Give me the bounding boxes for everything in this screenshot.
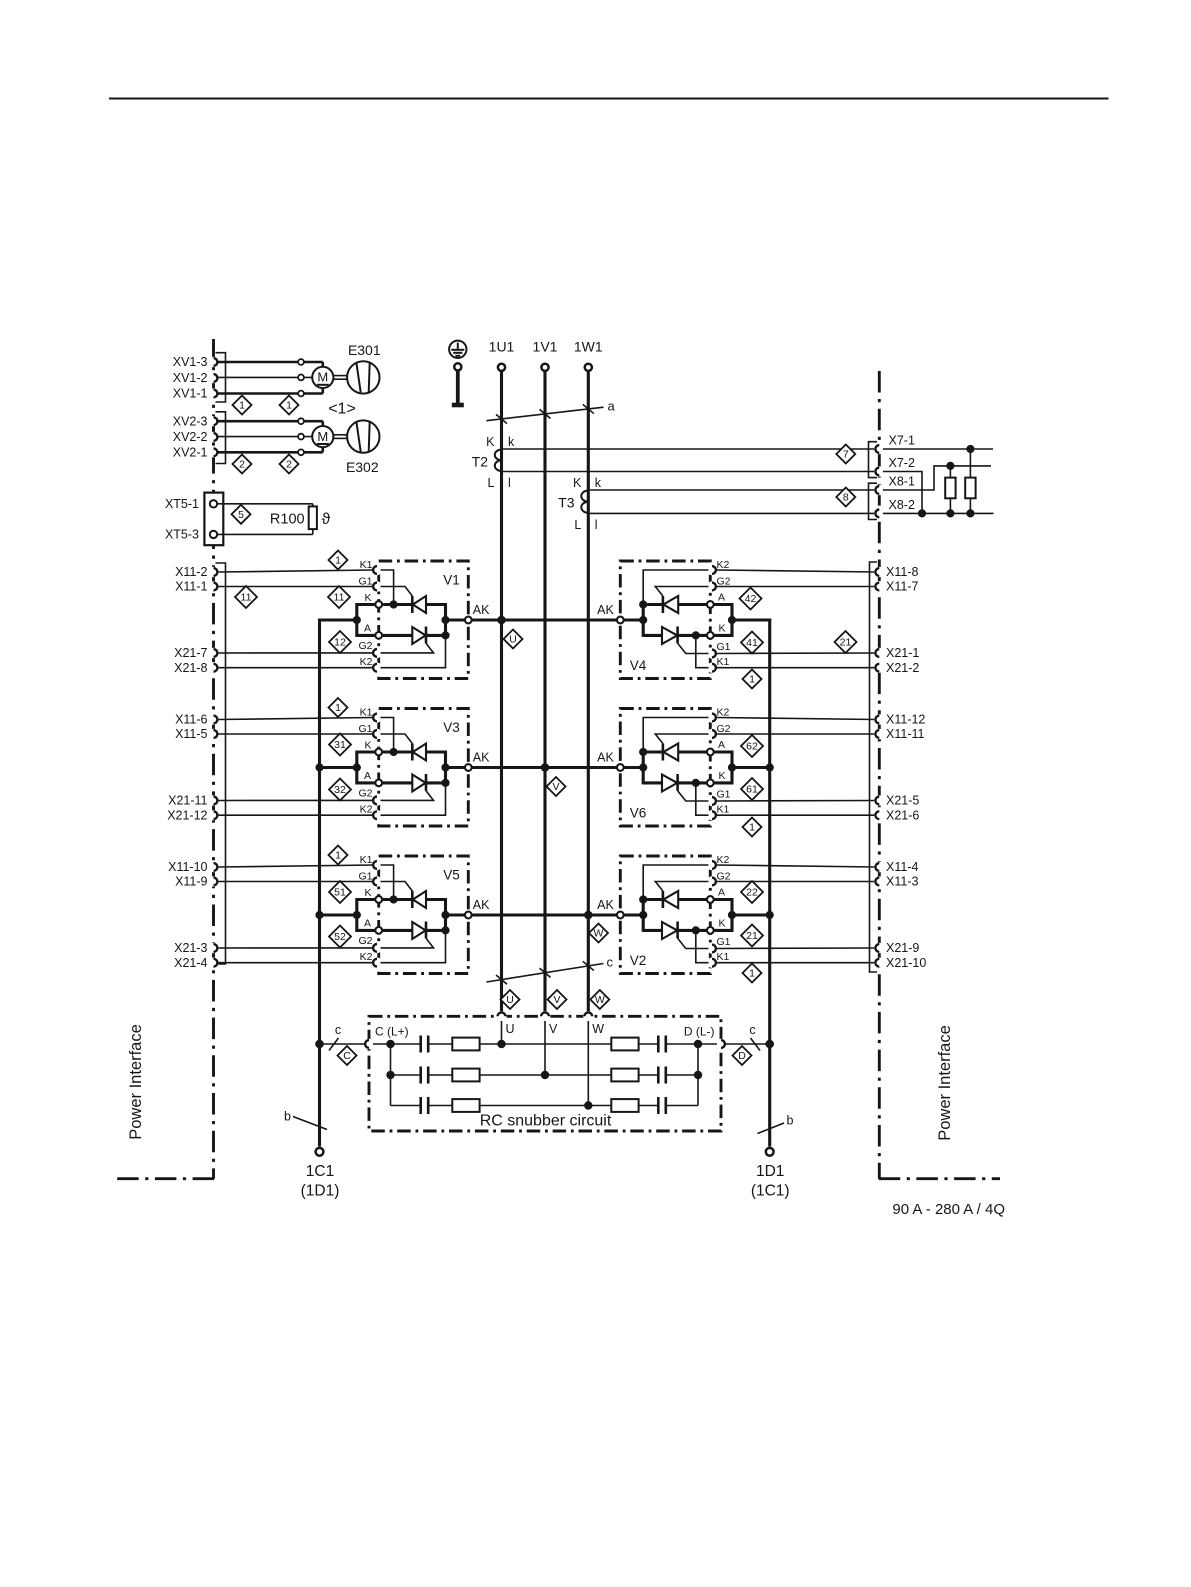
snubber V drop <box>544 1021 546 1075</box>
snubber right stack wire <box>697 1044 699 1106</box>
svg-text:(1C1): (1C1) <box>751 1183 790 1200</box>
thyristor module V4 box <box>620 561 717 679</box>
svg-text:V3: V3 <box>443 720 460 735</box>
V1 internal AK bus <box>444 603 447 637</box>
diamond V on bus <box>547 777 566 796</box>
V4 wire link to DC bus <box>732 618 771 621</box>
svg-text:K: K <box>364 592 371 604</box>
V5 pin A <box>375 927 382 934</box>
V1 AK pin <box>465 603 490 623</box>
diamond 62 <box>741 735 763 757</box>
V4 pin K <box>707 632 714 639</box>
svg-text:2: 2 <box>286 459 292 471</box>
V3 pin labels K1 G1 K A G2 K2 <box>358 707 372 816</box>
terminal X11-7 <box>874 580 918 594</box>
svg-text:X21-10: X21-10 <box>886 956 926 970</box>
svg-text:A: A <box>364 622 371 634</box>
terminal X11-12 <box>874 713 925 727</box>
svg-text:X11-3: X11-3 <box>886 875 918 889</box>
terminal X21-8 <box>174 661 219 675</box>
svg-text:K: K <box>719 622 726 634</box>
V6 upper thyristor (points left) <box>643 744 678 761</box>
svg-text:V2: V2 <box>630 953 647 968</box>
V6 pin labels K2 G2 A K G1 K1 <box>717 707 731 816</box>
svg-text:X21-3: X21-3 <box>174 941 207 955</box>
terminal 1V1 <box>533 339 558 371</box>
V5 upper thyristor (points left) <box>412 891 445 908</box>
wire K2 to X11-8 <box>716 570 876 572</box>
V2 K2 riser <box>643 865 708 900</box>
diamond W (snubber) <box>590 990 609 1009</box>
V1 K1 riser <box>381 570 394 605</box>
right boundary dash-dot (power interface border) <box>879 371 1000 1179</box>
svg-text:1: 1 <box>335 850 341 862</box>
V3 AK output wire <box>446 766 469 769</box>
V2 junction K2/upper line <box>639 895 647 903</box>
svg-text:1C1: 1C1 <box>306 1163 334 1180</box>
V1 junction AK tap <box>441 616 449 624</box>
wire T2 l to X7-2 <box>503 471 876 473</box>
wire X21-12 to K2 <box>218 814 373 816</box>
diamond 5 <box>232 505 251 524</box>
svg-text:X21-11: X21-11 <box>168 794 207 808</box>
snubber W drop <box>587 1021 589 1106</box>
svg-text:11: 11 <box>241 592 252 604</box>
svg-text:A: A <box>364 770 371 782</box>
V6 upper gate lead from G2 <box>655 734 708 744</box>
V6 AK pin <box>597 751 624 771</box>
terminal X11-1 <box>175 580 219 594</box>
V4 junction AK tap <box>639 616 647 624</box>
terminal X21-7 <box>174 646 219 660</box>
V4 K2 riser <box>643 570 708 605</box>
svg-text:1: 1 <box>749 822 755 834</box>
V6 internal AK bus <box>642 751 645 785</box>
svg-text:X11-7: X11-7 <box>886 580 918 594</box>
svg-text:51: 51 <box>334 887 346 899</box>
wire X7-2 jog down to X8-2 node <box>883 472 922 514</box>
svg-text:1: 1 <box>749 674 755 686</box>
diamond W on bus <box>589 924 608 943</box>
diamond 21 <box>741 925 763 947</box>
snubber terminal U <box>496 1011 514 1036</box>
V6 upper line anode side <box>678 750 707 753</box>
svg-text:D (L-): D (L-) <box>684 1025 715 1039</box>
V5 junction K2/A line <box>441 926 449 934</box>
V2 lower gate lead to G1 <box>678 938 709 948</box>
svg-text:7: 7 <box>843 449 849 461</box>
svg-text:Power Interface: Power Interface <box>127 1024 145 1140</box>
V2 internal AK bus <box>642 898 645 932</box>
svg-text:M: M <box>317 429 328 444</box>
terminal X11-2 <box>175 565 219 579</box>
burden resistor R left <box>945 466 955 514</box>
diamond 2 (XV2 left) <box>233 455 252 474</box>
motor fan E302 <box>218 418 379 475</box>
svg-text:X11-1: X11-1 <box>175 580 207 594</box>
svg-text:K1: K1 <box>717 803 730 815</box>
V4 internal AK bus <box>642 603 645 637</box>
svg-text:G2: G2 <box>358 640 372 652</box>
svg-text:U: U <box>509 634 517 646</box>
diamond 41 <box>741 632 763 654</box>
V6 pin K <box>707 780 714 787</box>
V1 upper gate lead from G1 <box>381 587 413 597</box>
V5 external K-A link <box>357 900 375 931</box>
snubber terminal C <box>364 1039 374 1049</box>
V6 pin arcs K2 G2 G1 K1 <box>712 714 716 820</box>
top rule <box>109 98 1109 100</box>
diamond 52 <box>329 926 351 948</box>
V1 K line (cathode upper thyristor) <box>382 603 412 606</box>
V2 K1 riser <box>696 930 709 962</box>
junction phase W to AK row3 <box>584 911 593 920</box>
V6 AK input wire <box>620 766 643 769</box>
svg-text:T2: T2 <box>472 454 489 470</box>
terminal X11-6 <box>175 713 219 727</box>
svg-text:b: b <box>284 1110 291 1124</box>
svg-text:E302: E302 <box>346 459 379 475</box>
wire K1 to X21-10 <box>716 962 876 964</box>
V6 wire link to DC bus <box>732 766 771 769</box>
svg-text:X21-4: X21-4 <box>174 956 207 970</box>
svg-text:C (L+): C (L+) <box>375 1025 409 1039</box>
svg-text:X11-4: X11-4 <box>886 860 918 874</box>
V1 upper thyristor (points left) <box>412 596 445 613</box>
svg-text:1: 1 <box>286 400 292 412</box>
svg-text:V1: V1 <box>443 573 460 588</box>
V2 pin K <box>707 927 714 934</box>
svg-text:2: 2 <box>239 459 245 471</box>
snubber U drop <box>501 1021 503 1044</box>
V6 lower thyristor (points right) <box>662 774 707 792</box>
terminal X21-10 <box>874 956 926 970</box>
terminal X8-2 <box>874 498 915 519</box>
diamond 1 (XV1 left) <box>233 396 252 415</box>
diamond C <box>338 1046 357 1065</box>
junction resistor right bottom <box>966 509 974 517</box>
snubber junction 698,1044 <box>694 1040 702 1048</box>
wire X11-6 to K1 <box>218 718 373 720</box>
V5 AK output wire <box>446 913 469 916</box>
diamond 2 (XV2 right) <box>280 455 299 474</box>
V1 AK output wire <box>446 618 469 621</box>
svg-text:W: W <box>595 994 605 1006</box>
V4 upper line anode side <box>678 603 707 606</box>
terminal X11-5 <box>175 727 219 741</box>
junction X7-2 ext/resistor <box>946 462 954 470</box>
snubber left stack wire <box>390 1044 392 1106</box>
diamond 1 (XV1 right) <box>280 396 299 415</box>
terminal X21-3 <box>174 941 219 955</box>
V1 A line (anode lower thyristor) <box>382 634 412 637</box>
V6 lower line <box>643 781 662 784</box>
terminal 1U1 <box>489 339 515 371</box>
snubber terminal V <box>540 1011 558 1036</box>
V5 upper gate lead from G1 <box>381 882 413 892</box>
svg-text:XT5-1: XT5-1 <box>165 497 199 511</box>
V3 junction K2/A line <box>441 779 449 787</box>
svg-text:X21-2: X21-2 <box>886 661 919 675</box>
junction right bus row2 <box>766 763 774 771</box>
svg-text:K1: K1 <box>717 656 730 668</box>
V1 pin A <box>375 632 382 639</box>
thyristor module V3 box <box>372 709 469 827</box>
svg-text:K: K <box>486 435 495 449</box>
cut line a across 1U1 1V1 1W1 <box>486 399 615 424</box>
wire X11-5 to G1 <box>218 733 373 735</box>
svg-text:c: c <box>335 1023 341 1037</box>
diamond V (snubber) <box>548 990 567 1009</box>
svg-text:42: 42 <box>745 593 757 605</box>
svg-text:K: K <box>364 887 371 899</box>
svg-text:b: b <box>787 1114 794 1128</box>
svg-text:k: k <box>595 476 602 490</box>
svg-text:X7-1: X7-1 <box>889 434 915 448</box>
diamond D <box>733 1046 752 1065</box>
V5 wire link to DC bus <box>318 913 357 916</box>
bracket XV1 group <box>216 353 226 402</box>
diamond 1 <box>329 846 348 865</box>
svg-text:K: K <box>719 770 726 782</box>
svg-text:G1: G1 <box>717 641 731 653</box>
V2 lower line <box>643 929 662 932</box>
wire X21-8 to K2 <box>218 667 373 669</box>
diamond 8 <box>836 488 855 507</box>
terminal block XT5 <box>165 493 223 546</box>
svg-text:X11-9: X11-9 <box>175 875 207 889</box>
svg-text:G2: G2 <box>358 788 372 800</box>
junction right bus/snubber <box>765 1040 774 1049</box>
svg-text:1: 1 <box>335 555 341 567</box>
V2 AK pin <box>597 898 624 918</box>
V1 junction K2/A line <box>441 631 449 639</box>
diamond 7 <box>836 445 855 464</box>
DC bus 1C1 left <box>318 618 321 1146</box>
V5 lower thyristor (points right) <box>412 922 445 940</box>
V4 upper thyristor (points left) <box>643 596 678 613</box>
svg-text:a: a <box>608 399 616 414</box>
wire X21-7 to G2 <box>218 652 373 654</box>
svg-text:90 A - 280 A / 4Q: 90 A - 280 A / 4Q <box>892 1201 1005 1218</box>
wire X21-11 to G2 <box>218 799 373 801</box>
phase bus W <box>587 372 590 1012</box>
svg-text:L: L <box>488 476 495 490</box>
svg-text:M: M <box>317 370 328 385</box>
DC bus 1D1 right <box>768 618 771 1146</box>
V5 internal AK bus <box>444 898 447 932</box>
wire X21-3 to G2 <box>218 947 373 949</box>
diamond 21 <box>835 631 857 653</box>
diamond 12 <box>329 631 351 653</box>
V6 junction AK tap <box>639 763 647 771</box>
V5 K line (cathode upper thyristor) <box>382 898 412 901</box>
terminal X11-8 <box>874 565 918 579</box>
terminal XV1-1 <box>173 387 219 401</box>
V1 lower thyristor (points right) <box>412 627 445 645</box>
svg-text:XV2-1: XV2-1 <box>173 446 208 460</box>
svg-text:W: W <box>592 1022 604 1036</box>
V5 AK pin <box>465 898 490 918</box>
wire T3 k to X8-1 <box>590 489 876 491</box>
V5 junction link/output <box>353 911 361 919</box>
V2 junction AK tap <box>639 911 647 919</box>
terminal X11-10 <box>168 860 219 874</box>
V6 lower gate lead to G1 <box>678 791 709 801</box>
diamond 1 <box>743 818 762 837</box>
svg-text:XV1-2: XV1-2 <box>173 371 208 385</box>
junction X7-1/resistor <box>966 445 974 453</box>
V2 upper gate lead from G2 <box>655 882 708 892</box>
svg-text:21: 21 <box>746 930 758 942</box>
svg-text:V: V <box>549 1022 558 1036</box>
svg-text:X21-9: X21-9 <box>886 941 919 955</box>
svg-text:X11-10: X11-10 <box>168 860 207 874</box>
AK row line row2 <box>468 766 620 769</box>
junction phase V to AK row2 <box>541 763 550 772</box>
svg-text:K2: K2 <box>360 656 373 668</box>
snubber junction 545.0,1075 <box>541 1071 549 1079</box>
svg-text:52: 52 <box>334 931 346 943</box>
AK row line row1 <box>468 618 620 621</box>
svg-text:U: U <box>506 994 514 1006</box>
burden resistor R right <box>965 449 975 513</box>
V2 pin A <box>707 896 714 903</box>
thyristor module V1 box <box>372 561 469 679</box>
wire K1 to X21-6 <box>716 814 876 816</box>
junction right bus row3 <box>766 911 774 919</box>
V6 junction K2/upper line <box>639 748 647 756</box>
V4 upper gate lead from G2 <box>655 587 708 597</box>
svg-text:1U1: 1U1 <box>489 339 515 355</box>
V1 wire link to DC bus <box>318 618 357 621</box>
svg-text:k: k <box>508 435 515 449</box>
terminal X21-11 <box>168 794 219 808</box>
wire X7-1 extension <box>883 448 993 450</box>
svg-text:G1: G1 <box>717 788 731 800</box>
cut line c across U V W <box>486 955 613 985</box>
V3 junction K1/K <box>390 748 398 756</box>
V3 external K-A link <box>357 752 375 783</box>
svg-text:U: U <box>506 1022 515 1036</box>
terminal X7-1 <box>874 434 915 455</box>
wire T2 k to X7-1 <box>503 448 876 450</box>
svg-text:K: K <box>573 476 582 490</box>
bracket X8 terminal group <box>869 483 878 519</box>
V1 junction K1/K <box>390 600 398 608</box>
terminal 1C1 <box>301 1148 340 1200</box>
terminal X11-9 <box>175 875 219 889</box>
V1 junction link/output <box>353 616 361 624</box>
svg-text:E301: E301 <box>348 342 381 358</box>
terminal X21-2 <box>874 661 919 675</box>
svg-text:X21-7: X21-7 <box>174 646 207 660</box>
svg-text:l: l <box>508 476 511 490</box>
V6 K1 riser <box>696 783 709 815</box>
svg-text:A: A <box>718 739 725 751</box>
V2 pin labels K2 G2 A K G1 K1 <box>717 854 731 963</box>
cut mark b (right) <box>758 1114 794 1134</box>
V2 junction link/output <box>728 911 736 919</box>
diamond 51 <box>329 881 351 903</box>
svg-text:1D1: 1D1 <box>756 1163 784 1180</box>
V4 junction K1/lower line <box>692 631 700 639</box>
wire right bus to snubber D <box>725 1043 769 1045</box>
PE earth terminal symbol <box>449 341 466 405</box>
snubber junction 390.5,1044 <box>386 1040 394 1048</box>
junction phase U to AK row1 <box>497 616 506 625</box>
terminal X11-11 <box>874 727 924 741</box>
V4 AK pin <box>597 603 624 623</box>
junction left bus row3 <box>315 911 323 919</box>
snubber junction 588.3,1105.5 <box>584 1101 592 1109</box>
terminal X21-9 <box>874 941 919 955</box>
svg-text:1: 1 <box>749 968 755 980</box>
wire T3 l to X8-2 <box>590 512 876 514</box>
diamond 11 <box>235 586 257 608</box>
phase bus V <box>543 372 546 1012</box>
diamond 42 <box>740 588 762 610</box>
svg-text:V: V <box>552 781 559 793</box>
V3 K1 riser <box>381 718 394 753</box>
motor fan E301 <box>218 342 381 396</box>
V2 pin arcs K2 G2 G1 K1 <box>712 861 716 967</box>
V2 upper thyristor (points left) <box>643 891 678 908</box>
svg-text:K: K <box>364 740 371 752</box>
bracket XV2 group <box>216 412 226 464</box>
bracket X11/X21 left terminal strip <box>216 563 226 964</box>
V1 pin arcs K1 G1 G2 K2 <box>373 566 377 672</box>
svg-text:l: l <box>595 518 598 532</box>
svg-text:AK: AK <box>473 751 490 765</box>
svg-text:AK: AK <box>597 603 614 617</box>
cut mark c (left) <box>329 1023 341 1051</box>
terminal X21-4 <box>174 956 219 970</box>
svg-text:X7-2: X7-2 <box>889 456 915 470</box>
wire X11-9 to G1 <box>218 881 373 883</box>
V5 junction K1/K <box>390 895 398 903</box>
V1 external K-A link <box>357 605 375 636</box>
V3 wire link to DC bus <box>318 766 357 769</box>
terminal 1W1 <box>574 339 603 371</box>
V3 K2 riser <box>381 783 446 815</box>
V6 junction K1/lower line <box>692 779 700 787</box>
svg-text:X21-8: X21-8 <box>174 661 207 675</box>
svg-text:21: 21 <box>840 637 852 649</box>
svg-text:X11-12: X11-12 <box>886 713 925 727</box>
V6 external A-K link <box>714 752 732 783</box>
V2 wire link to DC bus <box>732 913 771 916</box>
svg-text:61: 61 <box>746 784 758 796</box>
wire G2 to X11-11 <box>716 733 876 735</box>
V4 pin arcs K2 G2 G1 K1 <box>712 566 716 672</box>
snubber junction 390.5,1075 <box>386 1071 394 1079</box>
V5 pin K <box>375 896 382 903</box>
left boundary dash-dot (power interface border) <box>116 339 214 1179</box>
svg-text:1V1: 1V1 <box>533 339 558 355</box>
terminal X21-1 <box>874 646 919 660</box>
svg-text:K: K <box>719 917 726 929</box>
wire K1 to X21-2 <box>716 667 876 669</box>
V2 upper line anode side <box>678 898 707 901</box>
svg-text:62: 62 <box>746 741 758 753</box>
svg-text:AK: AK <box>473 898 490 912</box>
svg-text:V4: V4 <box>630 658 647 673</box>
V3 AK pin <box>465 751 490 771</box>
V1 pin labels K1 G1 K A G2 K2 <box>358 559 372 668</box>
svg-text:11: 11 <box>334 592 345 604</box>
junction left bus row2 <box>315 763 323 771</box>
